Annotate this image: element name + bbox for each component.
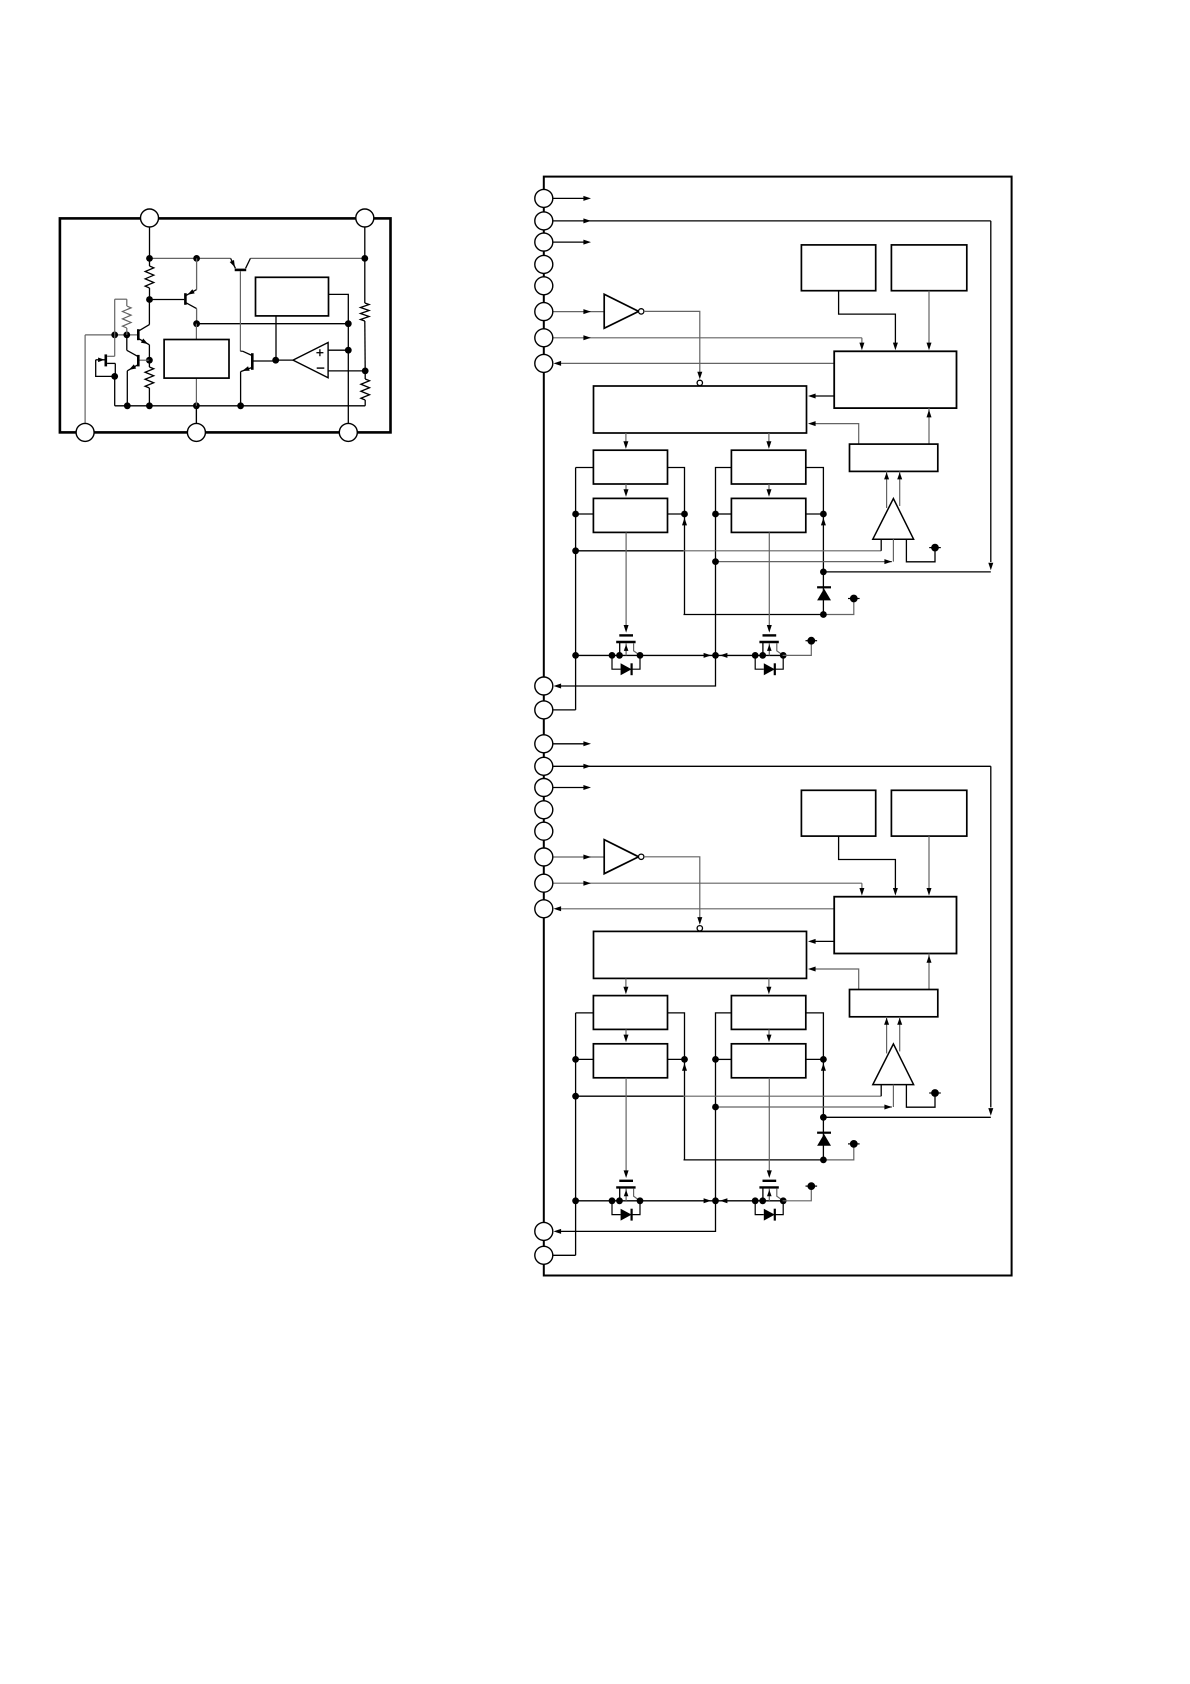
channel 1 block level shifter bbox=[850, 444, 938, 471]
channel 2 wire: comparator output A to level shifter (gray) bbox=[886, 1017, 888, 1054]
channel 1 comparator reference stub to test point bbox=[906, 539, 935, 562]
channel 2 wire: predriver A1 right connector bbox=[668, 1013, 685, 1160]
channel 1 wire: OSC block to control logic bbox=[839, 291, 896, 347]
channel 2 junction QB right leg bbox=[780, 1197, 787, 1204]
channel 1 pin 7 wire to control logic bbox=[553, 337, 862, 339]
channel 2 block REF bbox=[891, 790, 966, 836]
channel 2 body diode of QB bbox=[755, 1201, 764, 1215]
channel 2 wire: gate driver A2 right stub bbox=[668, 1058, 685, 1060]
IC equivalent-circuit frame bbox=[60, 218, 391, 432]
channel 1 junction B2 right bbox=[820, 511, 827, 518]
channel 2 block control logic bbox=[834, 897, 956, 954]
channel 2 source rail of output stage bbox=[576, 1200, 783, 1202]
wire: node G to ground rail bbox=[114, 376, 116, 405]
channel 2 center output node junction bbox=[712, 1197, 719, 1204]
channel 1 wire: gate driver B2 left stub bbox=[716, 513, 732, 515]
wire: Q3 collector node to comparator network (black) bbox=[197, 323, 349, 325]
channel 1 up arrow on clamp return B bbox=[821, 518, 826, 526]
channel 1 junction A2 right bbox=[681, 511, 688, 518]
channel 2 pin circles group bbox=[535, 735, 553, 753]
channel 2 wire: predriver B1 right connector bbox=[806, 1013, 824, 1160]
wire: node D to bottom-right pad bbox=[347, 324, 349, 424]
channel 2 left column rail bbox=[575, 1013, 577, 1255]
op-amp U2 bbox=[293, 343, 328, 378]
channel 2 strobe bubble on PWM block bbox=[697, 926, 702, 931]
channel 2 wire: output sense line to comparator (gray) bbox=[716, 1106, 893, 1108]
channel 1 junction on left rail at sense line bbox=[572, 547, 579, 554]
wire: block REG2 bottom to op-amp output node bbox=[275, 316, 277, 360]
channel 2 pin 12 wire to feedback line bbox=[553, 765, 991, 767]
channel 2 block level shifter bbox=[850, 990, 938, 1017]
channel 2 comparator U3 bbox=[873, 1044, 914, 1085]
pad P4 (bottom-center) bbox=[187, 423, 205, 441]
node E junction bbox=[111, 332, 118, 339]
resistor R5 bbox=[361, 303, 370, 321]
channel 2 wire: gate drive to output FET B (gray) bbox=[768, 1078, 770, 1176]
channel 1 junction QA right leg bbox=[637, 652, 644, 659]
resistor R2 with bypass loop (gray) bbox=[114, 299, 116, 335]
channel 1 block gate driver B2 bbox=[731, 498, 805, 532]
channel 2 output MOSFET QB bbox=[763, 1180, 777, 1182]
channel 2 up arrow on clamp return A bbox=[682, 1063, 687, 1071]
channel 2 junction QA left leg bbox=[616, 1197, 623, 1204]
channel 1 block predriver B1 bbox=[731, 450, 805, 484]
node F junction bbox=[123, 332, 130, 339]
node A junction bbox=[146, 255, 153, 262]
channel 2 wire: level shifter up to control logic (gray) bbox=[928, 954, 930, 990]
channel 1 pin 9 output return wire bbox=[556, 655, 715, 686]
transistor Q3 (PNP) bbox=[150, 299, 185, 301]
channel 1 wire: gate drive to output FET A (gray) bbox=[625, 532, 627, 630]
channel 2 body diode of QA bbox=[612, 1201, 621, 1215]
wire: top supply rail (gray) bbox=[150, 257, 231, 259]
channel 2 pin 11 output wire bbox=[553, 743, 585, 745]
node junction at top of R5 bbox=[361, 255, 368, 262]
block REG1 bbox=[164, 340, 229, 379]
channel 2 wire: PWM to high-side predriver bbox=[625, 978, 627, 992]
channel 2 wire: OSC block to control logic bbox=[839, 836, 896, 892]
channel 1 body diode of QA bbox=[612, 655, 621, 669]
wire: op-amp output to node I bbox=[276, 359, 293, 361]
channel 1 wire: predriver A1 to gate driver A2 bbox=[625, 484, 627, 494]
channel 1 pin 6 wire to inverter input bbox=[553, 311, 605, 313]
channel 2 wire: predriver B1 to gate driver B2 bbox=[768, 1029, 770, 1039]
junction: regulator block on rail bbox=[193, 402, 200, 409]
channel 2 wire: gate driver B2 left stub bbox=[716, 1058, 732, 1060]
channel 2 block PWM logic bbox=[594, 931, 807, 978]
channel 1 wire: clamp return line bbox=[684, 614, 824, 616]
channel 2 feedback horizontal wire to clamp node bbox=[823, 1116, 990, 1118]
channel 1 feedback vertical wire on right side bbox=[990, 221, 992, 562]
channel 1 diode bottom junction bbox=[820, 611, 827, 618]
channel 2 comparator input stub left bbox=[880, 1085, 882, 1097]
channel 2 wire: predriver A1 left supply connector bbox=[576, 1012, 594, 1014]
channel 1 block control logic bbox=[834, 351, 956, 408]
channel 1 wire: gate driver A2 right stub bbox=[668, 513, 685, 515]
channel 2 rail arrow into center node (from left) bbox=[704, 1198, 712, 1203]
block diagram outer frame bbox=[544, 177, 1012, 1276]
channel 1 junction QA drain tap bbox=[609, 652, 616, 659]
channel 2 test point TP2 with stub (gray) bbox=[823, 1147, 853, 1160]
junction: Q4 emitter on rail bbox=[124, 402, 131, 409]
channel 1 junction on output column at sense line bbox=[712, 558, 719, 565]
channel 2 up arrow on clamp return B bbox=[821, 1063, 826, 1071]
channel 1 junction QB drain tap bbox=[752, 652, 759, 659]
channel 1 wire: level shifter up to control logic (gray) bbox=[928, 408, 930, 444]
transistor Q5 (PNP, top center) bbox=[231, 258, 236, 268]
channel 1 clamp node junction at feedback bbox=[820, 569, 827, 576]
channel 1 block OSC bbox=[801, 245, 875, 291]
channel 2 wire: inverter output to PWM block strobe bbox=[644, 857, 700, 923]
channel 2 block predriver B1 bbox=[731, 996, 805, 1030]
channel 2 pin 16 wire to inverter input bbox=[553, 856, 605, 858]
junction: op-amp + input tap bbox=[345, 347, 352, 354]
resistor R3 bbox=[148, 360, 150, 367]
node junction at Q3 emitter bbox=[193, 255, 200, 262]
channel 1 pin 1 output wire bbox=[553, 197, 585, 199]
channel 1 rail arrow into center node (from right) bbox=[720, 653, 728, 658]
resistor R1 bbox=[149, 258, 151, 266]
channel 1 wire: predriver B1 left connector bbox=[716, 468, 732, 656]
channel 1 test point TP1 bbox=[931, 544, 939, 552]
wire: block REG2 output to node D bbox=[329, 294, 349, 323]
node H junction (Q2 emitter / Q4 base / R3 top) bbox=[146, 357, 153, 364]
channel 2 junction QA right leg bbox=[637, 1197, 644, 1204]
channel 2 junction QA drain tap bbox=[609, 1197, 616, 1204]
node G junction (M1 source/gate) bbox=[111, 373, 118, 380]
channel 2 inverter U1 bbox=[604, 840, 638, 874]
transistor M1 (N-FET, gate tied to source) bbox=[105, 354, 108, 366]
channel 1 wire: gate driver B2 right stub bbox=[806, 513, 824, 515]
resistor R4 bbox=[364, 371, 366, 379]
channel 1 wire: level shifter to PWM block (gray) bbox=[810, 424, 858, 445]
channel 1 junction source rail left bbox=[572, 652, 579, 659]
channel 1 strobe bubble on PWM block bbox=[697, 380, 702, 385]
channel 2 block predriver A1 bbox=[593, 996, 667, 1030]
channel 1 wire: gate driver A2 left stub bbox=[576, 513, 594, 515]
transistor Q4 (NPN) bbox=[137, 355, 140, 367]
channel 2 pin 13 output wire bbox=[553, 787, 585, 789]
channel 2 pin 19 output return wire bbox=[556, 1201, 715, 1232]
transistor Q2 (NPN) bbox=[137, 329, 140, 340]
channel 1 output MOSFET QA bbox=[619, 634, 633, 636]
channel 2 clamp node junction at feedback bbox=[820, 1114, 827, 1121]
channel 2 junction A2 left bbox=[572, 1056, 579, 1063]
channel 2 comparator reference stub to test point bbox=[906, 1085, 935, 1108]
channel 2 block gate driver A2 bbox=[593, 1044, 667, 1078]
channel 1 wire: PWM to low-side predriver bbox=[768, 433, 770, 447]
channel 1 inverter U1 bbox=[604, 294, 638, 328]
channel 2 wire: REF block to control logic (gray) bbox=[928, 836, 930, 892]
node B junction (R1 bottom / Q3 base / Q2 collector) bbox=[146, 296, 153, 303]
channel 1 pin 3 output wire bbox=[553, 241, 585, 243]
node C junction bbox=[193, 320, 200, 327]
channel 2 junction QB left leg bbox=[759, 1197, 766, 1204]
channel 1 wire: comparator output A to level shifter (gray) bbox=[886, 471, 888, 508]
channel 2 junction A2 right bbox=[681, 1056, 688, 1063]
channel 1 feedback horizontal wire to clamp node bbox=[823, 571, 990, 573]
channel 1 wire: PWM to high-side predriver bbox=[625, 433, 627, 447]
channel 2 wire: gate driver B2 right stub bbox=[806, 1058, 824, 1060]
channel 1 block REF bbox=[891, 245, 966, 291]
channel 1 junction A2 left bbox=[572, 511, 579, 518]
channel 1 test point TP2 with stub (gray) bbox=[823, 602, 853, 615]
channel 1 pin 8 status output wire bbox=[556, 362, 834, 364]
channel 2 block gate driver B2 bbox=[731, 1044, 805, 1078]
channel 2 wire: predriver B1 left connector bbox=[716, 1013, 732, 1201]
channel 1 wire: inverter output to PWM block strobe bbox=[644, 311, 700, 377]
channel 2 block OSC bbox=[801, 790, 875, 836]
wire: rail to bottom-center pad bbox=[195, 406, 197, 424]
wire: op-amp + input bbox=[328, 349, 348, 351]
channel 2 wire: predriver A1 to gate driver A2 bbox=[625, 1029, 627, 1039]
channel 1 wire: comparator output B to level shifter (gray) bbox=[899, 471, 901, 506]
channel 1 junction QB right leg bbox=[780, 652, 787, 659]
transistor Q6 (NPN) bbox=[251, 353, 254, 370]
channel 2 clamp diode D1 bbox=[817, 1132, 831, 1134]
junction: R3 on rail bbox=[146, 402, 153, 409]
channel 2 test point TP1 bbox=[931, 1089, 939, 1097]
wire: pad 1 sense line (gray) bbox=[84, 335, 86, 424]
channel 2 junction B2 left bbox=[712, 1056, 719, 1063]
channel 2 wire: supply sense line to comparator + (black then gray) bbox=[576, 1095, 684, 1097]
pad P5 (bottom-right) bbox=[339, 423, 357, 441]
channel 1 left column rail bbox=[575, 468, 577, 710]
channel 2 junction on output column at sense line bbox=[712, 1104, 719, 1111]
channel 2 wire: level shifter to PWM block (gray) bbox=[810, 969, 858, 990]
channel 1 junction B2 left bbox=[712, 511, 719, 518]
ground rail of small schematic bbox=[115, 405, 366, 407]
channel 1 clamp diode D1 bbox=[817, 586, 831, 588]
block REG2 bbox=[256, 277, 329, 316]
channel 2 pin 20 supply wire bbox=[553, 1254, 576, 1256]
channel 2 rail arrow into center node (from right) bbox=[720, 1198, 728, 1203]
channel 1 wire: supply sense line to comparator + (black then gray) bbox=[576, 550, 684, 552]
channel 1 pin circles group bbox=[535, 189, 553, 207]
wire: op-amp - input bbox=[328, 370, 365, 372]
channel 1 comparator input stub left bbox=[880, 539, 882, 551]
channel 1 comparator U3 bbox=[873, 499, 914, 540]
channel 2 feedback vertical wire on right side bbox=[990, 766, 992, 1107]
channel 1 wire: output sense line to comparator (gray) bbox=[716, 561, 893, 563]
channel 2 test point TP3 with stub (gray) bbox=[783, 1190, 812, 1201]
channel 1 test point TP3 with stub (gray) bbox=[783, 644, 812, 655]
node I junction (op-amp output) bbox=[272, 357, 279, 364]
wire: top-right pad to R5 bbox=[364, 222, 366, 258]
channel 2 comparator input stub center (gray) bbox=[892, 1085, 894, 1107]
channel 1 comparator input stub center (gray) bbox=[892, 539, 894, 561]
channel 2 wire: control logic to PWM block bbox=[810, 940, 834, 942]
channel 1 wire: predriver A1 left supply connector bbox=[576, 467, 594, 469]
wire: block REG1 to rail / pad 2 bbox=[195, 378, 197, 424]
channel 1 wire: REF block to control logic (gray) bbox=[928, 291, 930, 347]
channel 2 wire: gate driver A2 left stub bbox=[576, 1058, 594, 1060]
channel 2 wire: comparator output B to level shifter (gray) bbox=[899, 1017, 901, 1052]
channel 1 rail arrow into center node (from left) bbox=[704, 653, 712, 658]
node J junction (divider tap) bbox=[362, 368, 369, 375]
pad P2 (top-right) bbox=[356, 209, 374, 227]
channel 1 center output node junction bbox=[712, 652, 719, 659]
channel 1 pin 10 supply wire bbox=[553, 709, 576, 711]
pad P1 (top-left) bbox=[141, 209, 159, 227]
channel 1 source rail of output stage bbox=[576, 654, 783, 656]
channel 1 output MOSFET QB bbox=[763, 634, 777, 636]
channel 2 pin 18 status output wire bbox=[556, 908, 834, 910]
channel 2 junction B2 right bbox=[820, 1056, 827, 1063]
channel 1 wire: control logic to PWM block bbox=[810, 395, 834, 397]
channel 2 output MOSFET QA bbox=[619, 1180, 633, 1182]
channel 1 up arrow on clamp return A bbox=[682, 518, 687, 526]
channel 2 pin 17 wire to control logic bbox=[553, 882, 862, 884]
node D junction bbox=[345, 320, 352, 327]
channel 2 junction source rail left bbox=[572, 1197, 579, 1204]
channel 1 junction QB left leg bbox=[759, 652, 766, 659]
wire: node C down to block REG1 bbox=[195, 324, 197, 340]
channel 1 block PWM logic bbox=[594, 386, 807, 433]
channel 1 block gate driver A2 bbox=[593, 498, 667, 532]
wire: top-left pad to node A bbox=[149, 222, 151, 258]
channel 1 junction QA left leg bbox=[616, 652, 623, 659]
channel 2 diode bottom junction bbox=[820, 1157, 827, 1164]
channel 1 block predriver A1 bbox=[593, 450, 667, 484]
channel 1 wire: predriver A1 right connector bbox=[668, 468, 685, 615]
channel 2 wire: clamp return line bbox=[684, 1159, 824, 1161]
channel 2 junction on left rail at sense line bbox=[572, 1093, 579, 1100]
channel 1 pin 2 wire to feedback line bbox=[553, 220, 991, 222]
pad P3 (bottom-left) bbox=[76, 423, 94, 441]
channel 2 junction QB drain tap bbox=[752, 1197, 759, 1204]
junction: Q6 emitter on rail bbox=[237, 402, 244, 409]
channel 1 wire: gate drive to output FET B (gray) bbox=[768, 532, 770, 630]
channel 1 wire: predriver B1 to gate driver B2 bbox=[768, 484, 770, 494]
channel 1 wire: predriver B1 right connector bbox=[806, 468, 824, 615]
channel 1 body diode of QB bbox=[755, 655, 764, 669]
channel 2 wire: PWM to low-side predriver bbox=[768, 978, 770, 992]
channel 2 wire: gate drive to output FET A (gray) bbox=[625, 1078, 627, 1176]
